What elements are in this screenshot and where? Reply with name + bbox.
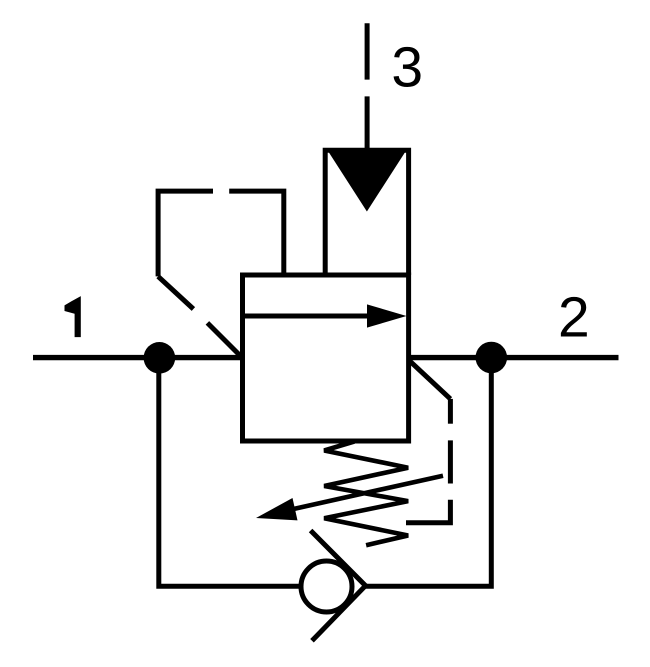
flow path arrow shaft inside valve: [243, 314, 373, 319]
dashed pilot line left: diagonal dash 1: [158, 276, 193, 309]
svg-text:3: 3: [391, 36, 423, 100]
pilot actuator box U1: [325, 150, 408, 275]
dashed pilot line right: solid diagonal from valve to spring side: [409, 360, 450, 399]
junction dot at port 2: [476, 342, 508, 374]
junction dot at port 1: [144, 342, 176, 374]
dashed pilot line left: top segment right part down to valve top: [229, 191, 284, 273]
pilot pressure triangle: [328, 151, 406, 212]
check valve ball circle: [301, 561, 352, 612]
dashed pilot line right: vertical dash 2: [448, 440, 453, 483]
dashed pilot line left: top segment and left corner: [158, 191, 213, 276]
svg-text:2: 2: [558, 286, 590, 350]
dashed pilot line right: corner dash into spring: [406, 500, 450, 523]
wire from port 1 node down to check valve: [159, 358, 301, 587]
adjustment arrow shaft through spring: [280, 476, 443, 512]
wire port 3 dashed pilot line: [365, 23, 370, 150]
main valve envelope box: [243, 275, 409, 441]
dashed pilot line right: vertical dash 1: [448, 399, 453, 424]
flow path arrowhead: [367, 304, 407, 327]
wire port 2 line: [409, 355, 619, 360]
wire port 1 line: [33, 355, 243, 360]
adjustment arrowhead: [256, 498, 298, 520]
dashed pilot line left: diagonal dash 2 to port 1 node: [207, 323, 241, 357]
wire from port 2 node down to check valve: [366, 358, 492, 587]
label port 1: [65, 296, 81, 337]
check valve seat V: [311, 531, 366, 641]
adjustable spring: [324, 442, 408, 546]
